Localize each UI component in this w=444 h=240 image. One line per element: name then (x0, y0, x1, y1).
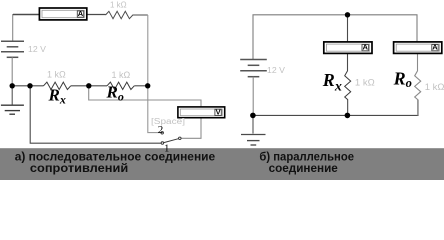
svg-text:1 kΩ: 1 kΩ (112, 70, 131, 80)
svg-text:V: V (216, 107, 221, 116)
svg-text:[Space]: [Space] (151, 117, 185, 126)
svg-text:Rx: Rx (322, 70, 342, 95)
svg-text:1 kΩ: 1 kΩ (47, 70, 66, 80)
svg-text:A: A (78, 9, 84, 18)
svg-text:Rx: Rx (48, 86, 66, 107)
svg-text:сопротивлений: сопротивлений (30, 161, 128, 175)
svg-text:A: A (362, 43, 368, 52)
svg-text:12 V: 12 V (267, 65, 285, 75)
svg-text:1 kΩ: 1 kΩ (425, 82, 444, 93)
svg-text:A: A (432, 43, 438, 52)
svg-text:1 kΩ: 1 kΩ (355, 77, 375, 88)
svg-text:12 V: 12 V (28, 44, 46, 54)
svg-text:2: 2 (158, 124, 164, 136)
svg-text:соединение: соединение (269, 161, 339, 175)
svg-text:1 kΩ: 1 kΩ (110, 0, 127, 9)
svg-text:Ro: Ro (393, 68, 412, 90)
